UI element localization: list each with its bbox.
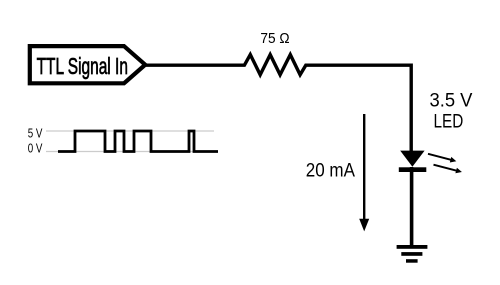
svg-text:0 V: 0 V xyxy=(28,142,43,155)
svg-text:TTL Signal In: TTL Signal In xyxy=(37,54,128,80)
svg-text:LED: LED xyxy=(434,110,464,132)
svg-text:3.5 V: 3.5 V xyxy=(430,89,473,110)
svg-text:75 Ω: 75 Ω xyxy=(260,31,289,48)
svg-text:5 V: 5 V xyxy=(28,127,43,140)
svg-text:20 mA: 20 mA xyxy=(306,160,355,181)
